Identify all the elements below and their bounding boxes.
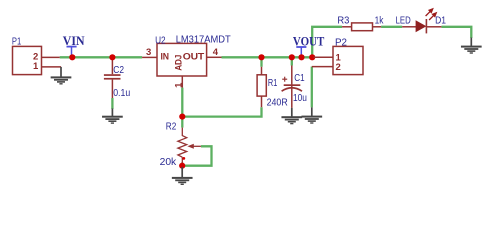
svg-text:R3: R3 (337, 16, 349, 27)
svg-text:20k: 20k (160, 157, 177, 168)
ground at C1 (281, 108, 302, 124)
junction dot VIN (69, 54, 75, 60)
svg-text:U2: U2 (155, 36, 166, 47)
wire VOUT up to R3 (312, 27, 342, 58)
wire ADJ vertical (181, 88, 183, 128)
ground at C2 (102, 109, 123, 124)
svg-text:4: 4 (213, 47, 219, 58)
wiper arrow (192, 145, 201, 147)
resistor R2 potentiometer (160, 122, 201, 168)
svg-text:R2: R2 (166, 122, 177, 133)
svg-text:R1: R1 (268, 78, 278, 89)
svg-text:1: 1 (33, 61, 39, 72)
svg-text:0.1u: 0.1u (113, 88, 130, 99)
junction dot R2 bottom (179, 163, 185, 169)
wire R1 top stub (260, 57, 262, 67)
svg-text:3: 3 (146, 47, 151, 58)
svg-text:VIN: VIN (63, 33, 85, 48)
svg-text:2: 2 (336, 62, 341, 73)
svg-text:ADJ: ADJ (174, 55, 185, 71)
junction dot ADJ node (179, 114, 185, 120)
junction dot R1 (258, 54, 264, 60)
svg-text:P1: P1 (12, 37, 22, 48)
svg-text:C1: C1 (294, 73, 305, 84)
svg-text:1k: 1k (375, 16, 384, 27)
connector P2 (312, 38, 363, 75)
svg-text:240R: 240R (267, 97, 288, 108)
LED light arrows (426, 9, 437, 20)
svg-text:IN: IN (161, 52, 170, 63)
ground at LED (461, 38, 482, 54)
diode D1 LED (396, 9, 447, 34)
ground at P1 pin1 (51, 67, 72, 85)
resistor R1 (257, 67, 288, 109)
resistor R3 (337, 16, 383, 31)
svg-text:LED: LED (396, 15, 411, 26)
wire R2 bottom stub (181, 163, 183, 167)
svg-text:C2: C2 (113, 65, 124, 76)
wire R3 to LED (381, 26, 402, 28)
wire LED to ground corner (441, 27, 471, 38)
regulator U2 LM317AMDT (142, 35, 231, 88)
wire ADJ to R1 horizontal (182, 107, 261, 116)
junction dot C1 (289, 54, 295, 60)
wire C1 top stub (291, 57, 293, 65)
wire VIN rail (60, 56, 142, 58)
svg-text:1: 1 (174, 82, 185, 88)
node VIN flag (63, 33, 85, 57)
svg-text:LM317AMDT: LM317AMDT (176, 35, 231, 46)
capacitor C1 polarized (282, 66, 307, 108)
plus sign (282, 78, 287, 80)
node VOUT flag (293, 34, 325, 57)
ground at R2 (172, 167, 193, 185)
junction dot VOUT (298, 54, 304, 60)
svg-text:D1: D1 (435, 16, 446, 27)
svg-text:OUT: OUT (183, 52, 205, 63)
junction dot C2 (109, 54, 115, 60)
svg-text:10u: 10u (293, 93, 307, 104)
wire P2 pin2 down (311, 67, 313, 108)
capacitor C2 (104, 58, 130, 99)
junction dot up-wire (309, 54, 315, 60)
wire VOUT rail (222, 56, 314, 58)
connector P1 (12, 37, 61, 75)
svg-text:P2: P2 (335, 38, 347, 49)
wire C2 bottom (111, 98, 113, 109)
wire R2 wiper feedback (182, 146, 211, 165)
ground at P2 pin2 (301, 107, 322, 123)
